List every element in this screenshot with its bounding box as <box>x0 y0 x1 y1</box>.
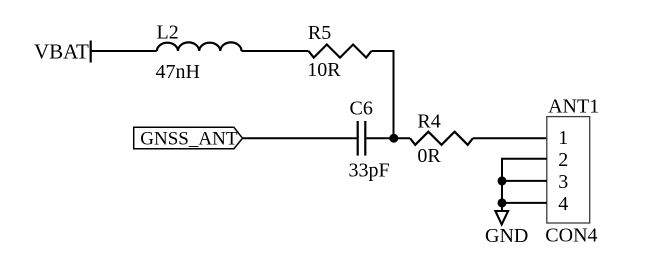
resistor R5 <box>309 45 372 58</box>
svg-text:0R: 0R <box>417 145 441 167</box>
svg-text:VBAT: VBAT <box>34 40 89 64</box>
wire C6 to R4 <box>366 137 410 139</box>
svg-text:33pF: 33pF <box>349 159 390 181</box>
wire corner down to junction <box>393 50 395 138</box>
svg-text:C6: C6 <box>350 98 373 120</box>
svg-text:R5: R5 <box>308 22 331 44</box>
junction node pin 3 <box>498 176 507 185</box>
wire ground rail <box>501 158 503 211</box>
svg-text:GND: GND <box>485 225 528 247</box>
wire R5 to corner <box>371 50 393 52</box>
junction node A <box>389 134 398 143</box>
inductor L2 <box>157 42 242 51</box>
svg-text:GNSS_ANT: GNSS_ANT <box>140 129 238 150</box>
wire pin 2 <box>502 158 547 160</box>
svg-text:3: 3 <box>558 171 568 193</box>
svg-text:10R: 10R <box>307 59 341 81</box>
resistor R4 <box>410 132 473 145</box>
svg-text:4: 4 <box>558 193 568 215</box>
wire L2 to R5 <box>242 50 309 52</box>
svg-text:L2: L2 <box>157 22 179 44</box>
capacitor C6 plate left <box>357 121 359 156</box>
capacitor C6 plate right <box>364 121 366 156</box>
ground symbol <box>495 211 508 224</box>
connector CON4 body <box>547 117 590 223</box>
svg-text:1: 1 <box>558 127 568 149</box>
wire VBAT to L2 <box>91 50 157 52</box>
wire pin 3 <box>502 180 547 182</box>
svg-text:R4: R4 <box>417 111 440 133</box>
wire GNSS_ANT to C6 <box>243 137 357 139</box>
svg-text:2: 2 <box>558 149 568 171</box>
net label flag GNSS_ANT <box>134 127 243 148</box>
wire R4 to connector pin 1 <box>473 137 547 139</box>
svg-text:47nH: 47nH <box>156 61 200 83</box>
wire pin 4 <box>502 202 547 204</box>
svg-text:CON4: CON4 <box>545 224 597 246</box>
port terminal bar VBAT <box>90 41 92 63</box>
svg-text:ANT1: ANT1 <box>548 96 599 118</box>
junction node pin 4 <box>498 198 507 207</box>
